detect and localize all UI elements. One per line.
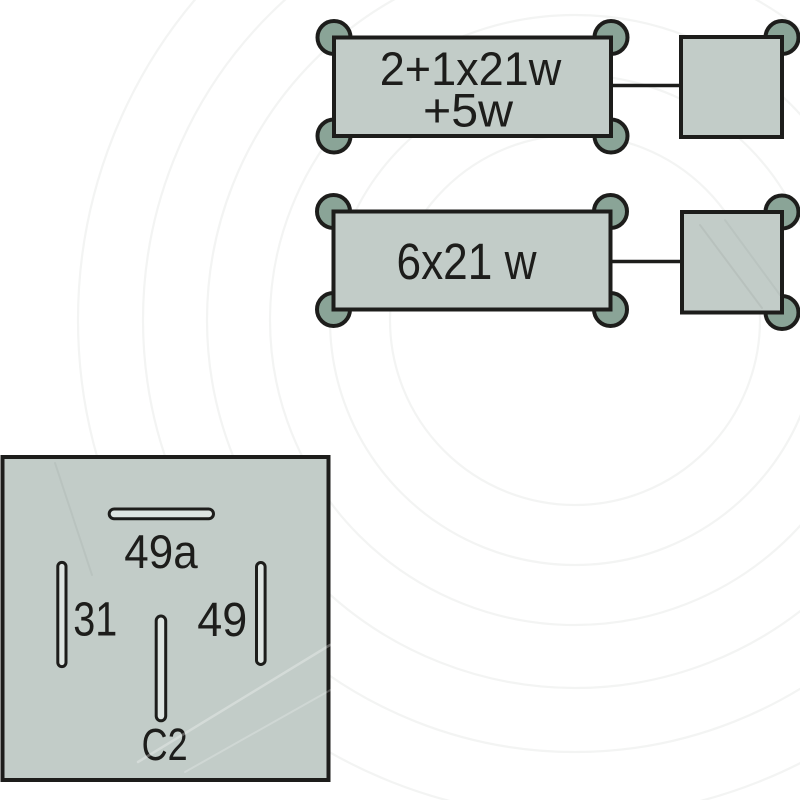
- svg-text:49a: 49a: [124, 526, 198, 579]
- pin slot 31: [58, 562, 66, 666]
- connector box 2 corner circles: [766, 196, 799, 330]
- svg-text:6x21 w: 6x21 w: [397, 233, 537, 290]
- wire 2: [611, 260, 683, 264]
- lamp block 1 rectangle: [334, 38, 611, 137]
- connector box 1 corner circle: [766, 21, 799, 54]
- svg-text:49: 49: [197, 594, 247, 647]
- pin slot 49a: [109, 509, 213, 519]
- relay base body: [3, 457, 329, 780]
- svg-text:31: 31: [73, 593, 117, 646]
- connector box 2: [682, 212, 782, 313]
- connector box 1: [681, 37, 782, 137]
- svg-text:+5w: +5w: [423, 84, 514, 137]
- lamp block 2 corner circles: [317, 195, 627, 326]
- faint watermark streaks: [55, 220, 780, 772]
- lamp block 1 corner circles: [318, 21, 628, 153]
- pin slot 49: [257, 563, 266, 665]
- wire 1: [611, 84, 682, 88]
- lamp block 2 rectangle: [334, 212, 611, 310]
- pin slot C2: [156, 616, 166, 721]
